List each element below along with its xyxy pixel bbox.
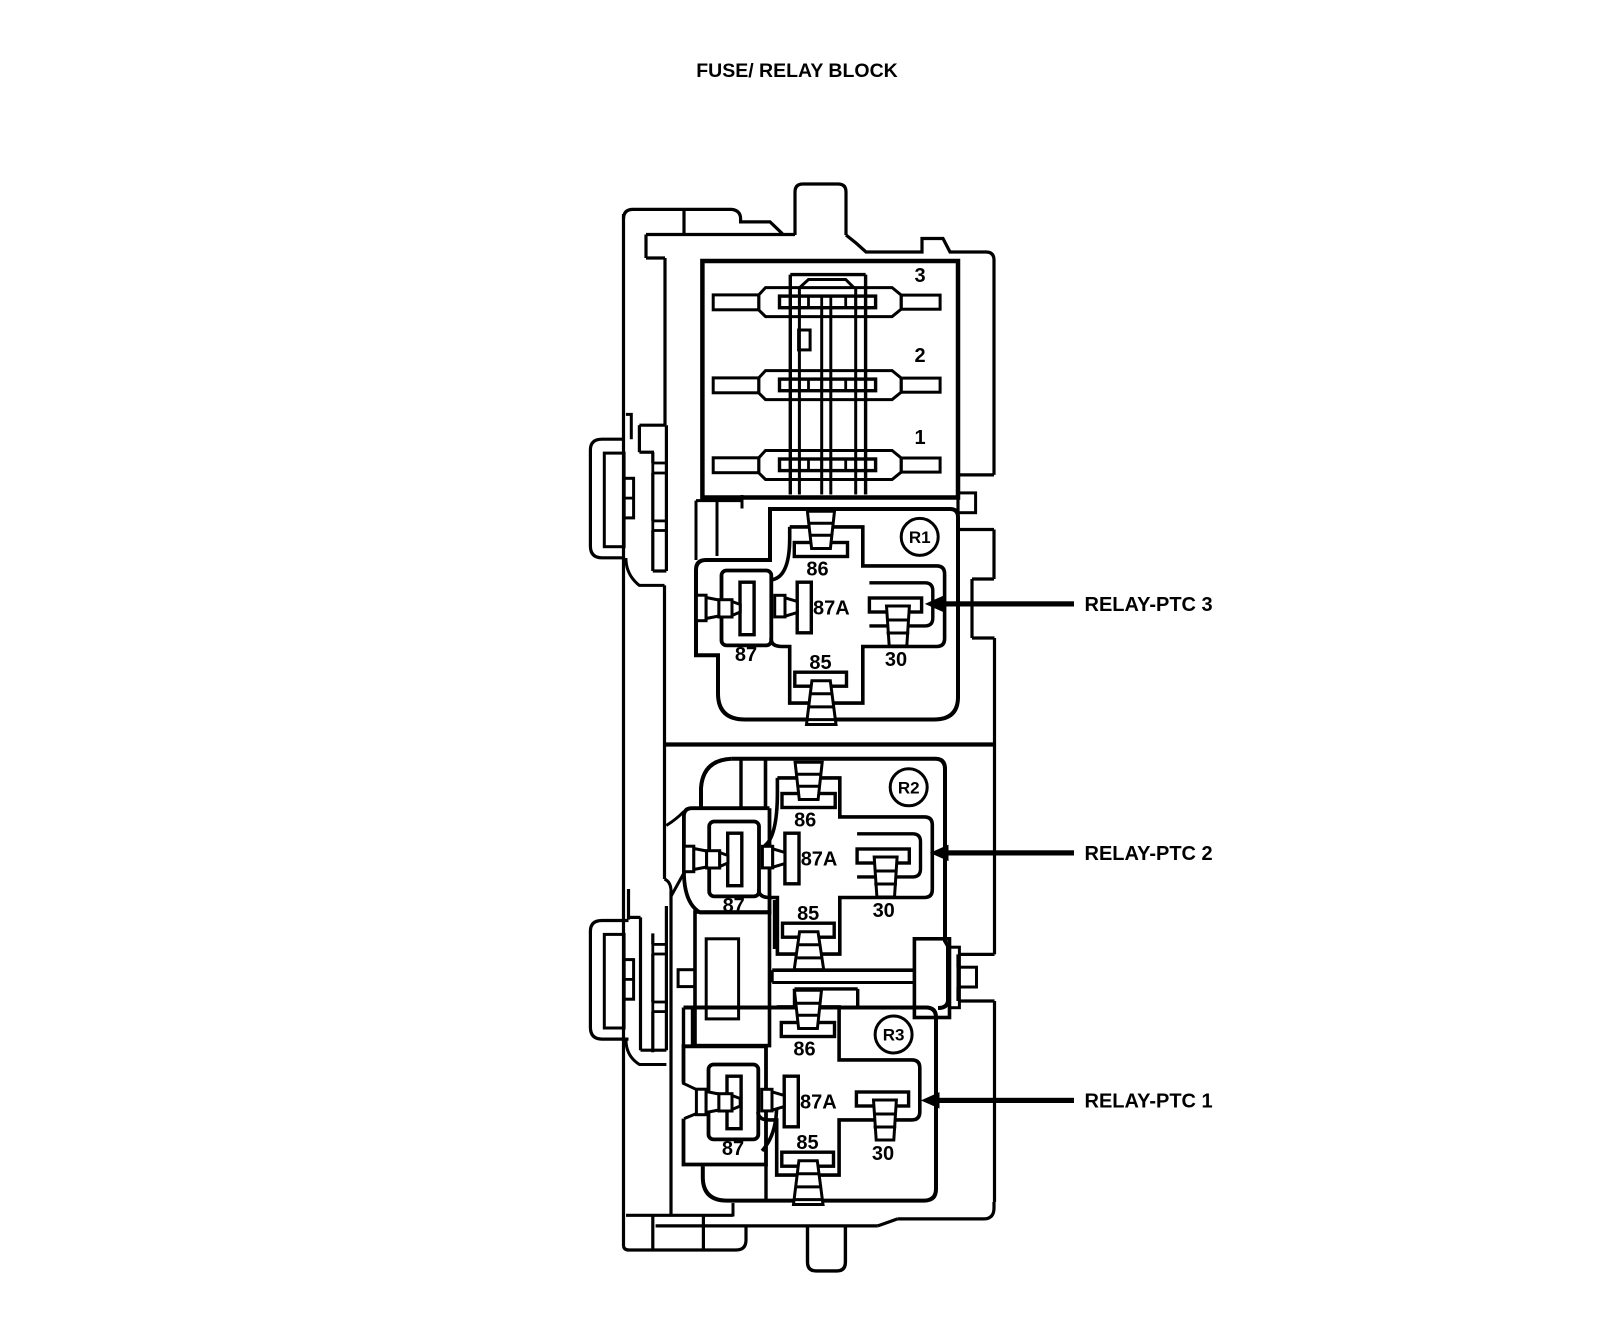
svg-text:3: 3 (914, 265, 925, 287)
svg-text:85: 85 (797, 903, 819, 925)
svg-text:R2: R2 (898, 778, 920, 797)
svg-text:R1: R1 (909, 528, 931, 547)
svg-text:30: 30 (872, 1143, 894, 1165)
svg-text:86: 86 (806, 559, 828, 581)
svg-text:2: 2 (914, 345, 925, 367)
svg-text:86: 86 (793, 1039, 815, 1061)
svg-text:86: 86 (794, 810, 816, 832)
svg-text:1: 1 (914, 427, 925, 449)
svg-text:30: 30 (873, 900, 895, 922)
svg-text:87: 87 (735, 644, 757, 666)
svg-text:87: 87 (722, 1138, 744, 1160)
svg-text:87A: 87A (813, 598, 850, 620)
svg-text:87A: 87A (801, 849, 838, 871)
svg-text:RELAY-PTC 2: RELAY-PTC 2 (1085, 843, 1213, 865)
svg-text:R3: R3 (883, 1026, 905, 1045)
svg-text:85: 85 (796, 1132, 818, 1154)
svg-text:87A: 87A (800, 1092, 837, 1114)
svg-text:85: 85 (809, 652, 831, 674)
svg-text:FUSE/ RELAY BLOCK: FUSE/ RELAY BLOCK (696, 60, 898, 82)
svg-text:RELAY-PTC 1: RELAY-PTC 1 (1085, 1090, 1213, 1112)
svg-text:30: 30 (885, 649, 907, 671)
svg-text:RELAY-PTC 3: RELAY-PTC 3 (1085, 594, 1213, 616)
